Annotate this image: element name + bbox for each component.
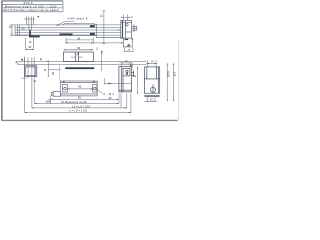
end section 1 [119, 64, 134, 92]
dim 50 above head [64, 49, 94, 51]
right vertical dim line 1 [166, 63, 168, 101]
support block outer [25, 66, 37, 77]
dim 60 inside front view [68, 88, 93, 90]
dim 23 top arrow [47, 60, 49, 62]
lid screw tick 2 [74, 23, 76, 25]
svg-text:(64): (64) [46, 100, 51, 104]
bolt dot left [63, 81, 65, 83]
leader line to section1 [104, 82, 131, 84]
mid section line [100, 51, 102, 72]
upper dim line [24, 18, 35, 20]
section foot dark wedge [127, 43, 130, 46]
left chain verticals [25, 57, 35, 112]
tiny marks below right edge [96, 47, 98, 49]
lid screw tick 1 [67, 23, 69, 25]
raised lid top [63, 23, 96, 25]
plan bar bottom line [18, 64, 147, 66]
head dark bottom strip [65, 67, 94, 69]
screw circle left [22, 28, 24, 30]
svg-text:10 Measuring length: 10 Measuring length [61, 100, 88, 104]
dim 7 arrows [71, 56, 83, 58]
hole callout arrowhead [56, 24, 59, 26]
depth bottom tick [103, 43, 106, 45]
sheet bottom border [2, 119, 178, 121]
dim row B [34, 93, 121, 108]
end section 2 [144, 67, 159, 97]
upper body line 4 [15, 32, 96, 34]
dim 14 above section 2 [146, 60, 158, 67]
red mark near ticks [40, 59, 41, 60]
support block inner [26, 67, 36, 76]
front view body [51, 81, 97, 96]
plan head rect [64, 52, 94, 62]
svg-text:20/170 Auxiliary support can b: 20/170 Auxiliary support can be added [3, 8, 59, 12]
svg-text:L=L0+158: L=L0+158 [69, 109, 88, 113]
label a mark [21, 59, 23, 61]
right end bracket of front view [93, 85, 97, 92]
svg-text:SV4-5: SV4-5 [24, 1, 34, 5]
right end dark block lower [90, 33, 95, 36]
projection line 6 foot line [96, 37, 123, 39]
leader vertical stub [103, 78, 105, 84]
projection line 2 to section [96, 27, 120, 29]
svg-text:Measuring length LH 300 — 1500: Measuring length LH 300 — 1500 [5, 4, 57, 8]
projection line 5 to section [96, 34, 120, 36]
upper body left cap line 2 [18, 25, 20, 35]
upper body left edge [14, 25, 16, 35]
svg-text:(38.5): (38.5) [168, 71, 170, 77]
projection line 1 to section [96, 24, 120, 26]
dim arrowheads [11, 17, 174, 113]
plan bar left cap [17, 62, 19, 65]
svg-text:86.5: 86.5 [174, 71, 176, 76]
connector small [51, 93, 53, 96]
left foot bracket horizontal [29, 36, 40, 38]
red revision arrow [37, 16, 39, 18]
title table row line 3 [2, 11, 64, 13]
dim 30 below section 2 [145, 96, 158, 101]
upper body top line [15, 24, 96, 26]
vertical dim 23 [47, 60, 49, 77]
title table row line 1 [2, 3, 64, 5]
right vertical dim line 2 [173, 63, 175, 101]
section foot block [123, 38, 132, 47]
dim row C [126, 93, 128, 108]
notch arrow red [130, 64, 132, 66]
top section view [121, 20, 137, 38]
upper dim extension line c [31, 16, 33, 30]
upper body line 3 [15, 29, 96, 31]
connector large [53, 92, 60, 97]
dim 20 [26, 38, 34, 50]
carriage dark block [60, 33, 73, 35]
small square mark [52, 73, 54, 75]
sheet right border [178, 40, 180, 121]
title table top edge [2, 0, 64, 2]
sheet left border [1, 1, 3, 121]
dim 14 above section 1 [120, 63, 134, 67]
section foot micro label [125, 39, 129, 40]
dim b extension lines [121, 14, 131, 20]
depth section tick [102, 10, 105, 12]
dim row D [25, 93, 131, 113]
dim row A [51, 96, 119, 104]
depth section line [103, 11, 105, 44]
upper body right edge [95, 24, 97, 38]
bolt dot right [93, 81, 95, 83]
upper body bottom line [15, 34, 96, 36]
dim 65 [66, 38, 123, 44]
hole callout leader [57, 21, 75, 25]
left foot bracket vertical [29, 30, 31, 37]
leader arrow tick [109, 83, 112, 85]
svg-text:L1=L0+138: L1=L0+138 [72, 104, 91, 108]
upper body line 2 [15, 27, 96, 29]
vertical dim 27 [137, 67, 139, 95]
upper dim extension line d [33, 16, 35, 25]
left end bracket of front view [63, 85, 68, 92]
projection line 4 to section [96, 32, 120, 34]
left height dim 18 [10, 25, 15, 35]
upper dim extension line b [28, 16, 30, 30]
title table row line 2 [2, 7, 64, 9]
svg-text:4-M4 depth 8: 4-M4 depth 8 [67, 17, 88, 21]
leader 2-M4 [95, 89, 103, 94]
right end dark block upper [90, 25, 95, 27]
projection line 3 to section [96, 29, 120, 31]
upper body left cap line 1 [17, 25, 19, 35]
cable line [48, 69, 61, 71]
upper dim extension line a [26, 16, 28, 25]
title table right edge [62, 1, 64, 12]
faint bridge vertical [59, 65, 61, 81]
red tick at bar cap [16, 62, 17, 63]
dim b line [121, 16, 131, 18]
plan bar top line [18, 62, 147, 65]
dim 73 below foot [124, 48, 133, 53]
extension tick from a [23, 57, 25, 63]
